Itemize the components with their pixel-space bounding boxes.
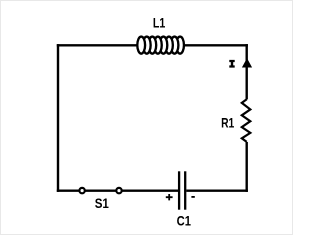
- svg-text:S1: S1: [95, 195, 109, 211]
- label I: [229, 60, 234, 68]
- wire left side: [57, 44, 59, 192]
- label plus: [166, 194, 173, 200]
- capacitor C1 plate right: [184, 171, 186, 209]
- current arrow: [242, 58, 252, 67]
- wire right side, lower segment (R1 to bottom-right corner): [245, 142, 247, 192]
- wire top, right-hand segment (L1 to top-right corner): [184, 44, 248, 46]
- switch S1 contact 1: [79, 188, 84, 193]
- svg-text:C1: C1: [177, 213, 191, 229]
- switch S1 contact 2: [116, 188, 121, 193]
- label minus: [191, 196, 194, 198]
- inductor L1 coil: [137, 37, 184, 54]
- wire right side, upper segment (corner to R1): [245, 44, 247, 99]
- wire top, left-hand segment (top-left corner to L1): [57, 44, 138, 46]
- capacitor C1 plate left: [178, 171, 180, 209]
- wire bottom, left segment (corner through S1 to C1): [57, 189, 178, 191]
- svg-text:R1: R1: [221, 114, 234, 130]
- svg-text:L1: L1: [153, 15, 166, 31]
- wire bottom, right segment (C1 to bottom-right corner): [186, 189, 248, 191]
- resistor R1 zigzag: [242, 99, 251, 142]
